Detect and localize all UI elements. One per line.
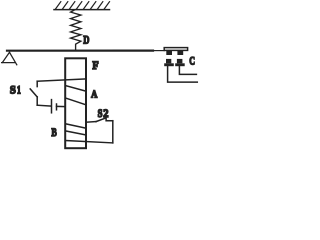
contact tab left [166,51,172,55]
wire from left contact [168,66,198,82]
winding turn 3 [66,124,86,128]
svg-text:S: S [10,85,16,97]
svg-text:D: D [83,33,89,47]
svg-text:S: S [98,108,103,120]
wire box to S2 [86,121,96,124]
winding turn 4 [66,131,86,135]
wire S1 top to box [37,79,86,81]
spring D [71,10,81,50]
svg-text:B: B [51,125,56,139]
fixed ceiling support [54,2,110,10]
bottom tap wire / box divider [66,141,113,143]
wire battery to box [57,105,66,107]
S2 contact post [106,118,113,121]
svg-text:F: F [92,58,98,72]
lever beam [7,49,153,51]
wire from right contact [179,66,196,74]
moving contact left [164,59,174,66]
lever beam thin right end [153,50,165,52]
battery [52,100,57,113]
svg-text:2: 2 [103,108,108,120]
switch S2 blade [96,118,106,122]
pivot fulcrum [2,52,17,65]
switch S1 [30,81,51,106]
svg-text:1: 1 [17,85,21,97]
wire S2 down to bottom tap [112,121,114,143]
winding turn 1 [66,86,86,92]
moving contact right [175,59,185,66]
contact tab right [177,51,183,55]
svg-text:A: A [91,90,98,101]
svg-text:C: C [189,53,195,67]
electromagnet box F [65,58,86,148]
contact plate [164,48,187,51]
winding turn 2 [66,98,86,105]
